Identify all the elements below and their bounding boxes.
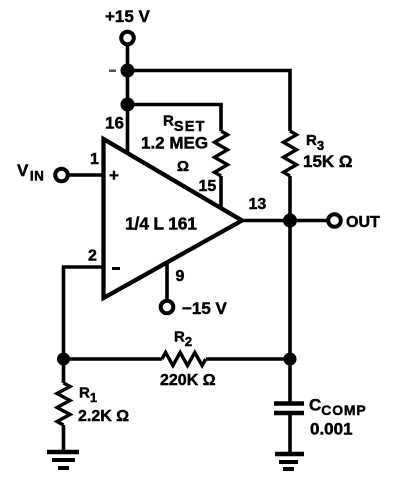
- wire out node down: [288, 221, 292, 404]
- resistor R2: [162, 353, 206, 366]
- svg-text:1: 1: [90, 151, 99, 168]
- op-amp minus input mark: [112, 267, 120, 270]
- wire +15V vertical: [126, 44, 130, 154]
- resistor R1: [57, 383, 70, 425]
- ground right: [275, 454, 304, 469]
- svg-text:15: 15: [199, 178, 217, 195]
- terminal +15V: [121, 32, 134, 45]
- wire CCOMP bottom: [288, 413, 292, 454]
- junction node OUT: [283, 214, 297, 228]
- wire RSET bottom pin15: [219, 176, 223, 209]
- wire opamp output: [241, 219, 328, 223]
- svg-text:+15 V: +15 V: [105, 7, 151, 26]
- wire R3 bottom to out node: [288, 176, 292, 221]
- terminal VIN: [55, 169, 68, 182]
- wire R1 bottom: [62, 425, 66, 452]
- svg-text:1/4 L 161: 1/4 L 161: [125, 214, 197, 234]
- terminal OUT: [328, 214, 341, 227]
- wire VIN to pin1: [68, 173, 104, 177]
- wire pin9: [165, 262, 169, 301]
- scan speck: [109, 70, 116, 73]
- svg-text:2.2K Ω: 2.2K Ω: [78, 408, 129, 425]
- capacitor CCOMP top plate: [274, 401, 304, 406]
- svg-text:1.2 MEG: 1.2 MEG: [141, 134, 208, 153]
- ground left: [47, 452, 79, 468]
- wire to RSET top: [128, 105, 222, 132]
- junction dot R2 right: [284, 353, 297, 366]
- junction dot R1 top: [57, 353, 70, 366]
- svg-text:2: 2: [88, 248, 97, 265]
- svg-text:13: 13: [249, 196, 267, 213]
- resistor RSET: [215, 131, 228, 176]
- svg-text:−15 V: −15 V: [182, 299, 228, 318]
- wire pin2 to R1 node: [64, 267, 104, 359]
- op-amp U1 triangle: [104, 139, 243, 298]
- svg-text:9: 9: [176, 268, 185, 285]
- svg-text:+: +: [109, 166, 119, 185]
- wire R1 top: [62, 359, 66, 383]
- svg-text:OUT: OUT: [346, 214, 380, 231]
- svg-text:16: 16: [105, 114, 124, 133]
- terminal -15V: [161, 301, 174, 314]
- capacitor CCOMP bottom plate: [274, 411, 304, 416]
- wire R2 left: [64, 357, 163, 361]
- junction dot A: [121, 64, 135, 78]
- junction dot B: [121, 98, 135, 112]
- resistor R3: [284, 131, 297, 176]
- svg-text:Ω: Ω: [177, 158, 189, 175]
- wire top to R3: [128, 71, 291, 132]
- wire R2 right: [206, 357, 290, 361]
- svg-text:220K Ω: 220K Ω: [160, 372, 216, 389]
- svg-text:15K Ω: 15K Ω: [303, 152, 353, 171]
- svg-text:0.001: 0.001: [310, 420, 353, 439]
